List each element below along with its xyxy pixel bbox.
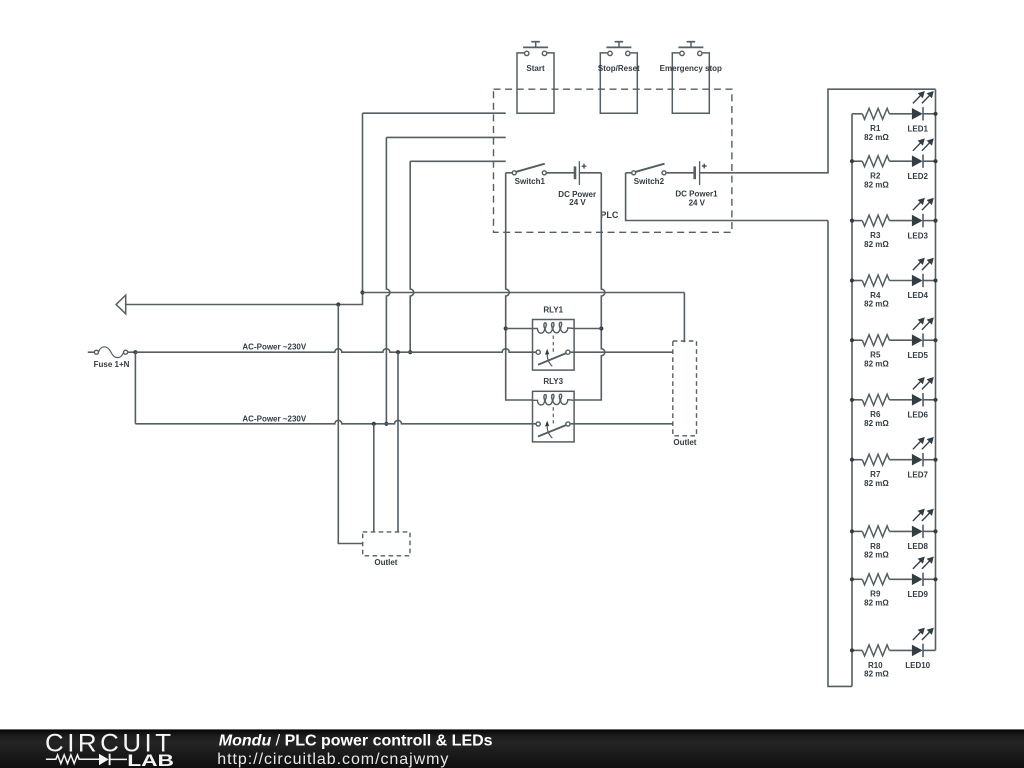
wire RLY1 coil right lead [574, 328, 601, 330]
svg-text:Outlet: Outlet [374, 558, 397, 567]
svg-text:Stop/Reset: Stop/Reset [598, 64, 640, 73]
wire vertical from AC1 to bottom outlet (x=398.0) [397, 352, 399, 532]
LED LED6 [907, 377, 935, 420]
resistor R9 [852, 574, 912, 608]
svg-text:Switch1: Switch1 [515, 177, 546, 186]
junction right bus row 5 [933, 338, 937, 342]
junction at (410.2,352.2) [408, 350, 412, 354]
resistor R10 [852, 645, 912, 679]
svg-text:R10: R10 [868, 661, 883, 670]
wire horizontal net at y=292.5 from (362.5) to right outlet drop [363, 292, 685, 294]
LED LED1 [907, 91, 935, 134]
svg-text:R3: R3 [870, 231, 881, 240]
svg-text:LED5: LED5 [907, 351, 928, 360]
wire AC line 2 (neutral) y=423.8 [135, 420, 672, 423]
svg-text:R9: R9 [870, 590, 881, 599]
resistor R6 [852, 394, 912, 428]
svg-text:http://circuitlab.com/cnajwmy: http://circuitlab.com/cnajwmy [217, 751, 449, 768]
wire AC line 1 (live) y=352.2 [135, 349, 672, 353]
wire PLC input stub 3 (y=161) [410, 160, 506, 162]
wire vertical from stub1 down to node row (x=362.5) [362, 113, 364, 292]
brand bar [0, 729, 1024, 768]
svg-text:Fuse 1+N: Fuse 1+N [94, 360, 130, 369]
junction left bus row 4 [850, 278, 854, 282]
PLC enclosure dashed box [494, 89, 732, 232]
fuse Fuse 1+N [88, 347, 136, 369]
svg-text:RLY3: RLY3 [543, 377, 563, 386]
wire PLC input stub 1 (y=113) [363, 112, 506, 114]
svg-text:82 mΩ: 82 mΩ [864, 359, 889, 368]
svg-text:LED10: LED10 [905, 661, 930, 670]
resistor R5 [852, 335, 912, 369]
svg-text:R7: R7 [870, 470, 881, 479]
junction left bus row 2 [850, 159, 854, 163]
junction left bus row 5 [850, 338, 854, 342]
logo resistor-diode glyph [46, 755, 99, 764]
resistor R2 [852, 156, 912, 190]
junction right bus row 3 [933, 219, 937, 223]
junction at (505.7,328.5) [504, 326, 508, 330]
wire LED ladder right bus (x=935.5) [935, 89, 937, 650]
wire DC Power1 + feed to LED ladder top [700, 89, 936, 173]
svg-text:R8: R8 [870, 542, 881, 551]
junction at (398.0,352.2) [396, 350, 400, 354]
svg-text:82 mΩ: 82 mΩ [864, 300, 889, 309]
junction left bus row 3 [850, 219, 854, 223]
svg-text:82 mΩ: 82 mΩ [864, 599, 889, 608]
battery DC Power1 24 V [675, 161, 718, 207]
junction right bus row 7 [933, 458, 937, 462]
junction at (362.5,292.5) [360, 290, 364, 294]
svg-text:24 V: 24 V [689, 199, 706, 208]
svg-text:82 mΩ: 82 mΩ [864, 479, 889, 488]
LED LED10 [905, 628, 935, 671]
svg-text:LED3: LED3 [907, 231, 928, 240]
svg-text:24 V: 24 V [569, 198, 586, 207]
svg-text:LED2: LED2 [907, 172, 928, 181]
svg-text:LED9: LED9 [907, 590, 928, 599]
svg-text:Emergency stop: Emergency stop [660, 64, 722, 73]
junction at (338.3,304.5) [336, 302, 340, 306]
LED LED4 [907, 258, 935, 301]
LED LED5 [907, 317, 935, 360]
svg-text:82 mΩ: 82 mΩ [864, 133, 889, 142]
junction left bus row 9 [850, 577, 854, 581]
wire vertical from stub3 down to AC line 1 (x=410.2) [410, 161, 414, 352]
svg-text:R5: R5 [870, 351, 881, 360]
svg-text:LED7: LED7 [907, 470, 928, 479]
svg-text:DC Power1: DC Power1 [675, 190, 718, 199]
svg-text:Switch2: Switch2 [634, 177, 665, 186]
resistor R8 [852, 526, 912, 560]
junction left bus row 10 [850, 648, 854, 652]
svg-text:LAB: LAB [127, 752, 174, 768]
wire return vertical (x=828) down to bottom [828, 221, 852, 687]
switch Switch2 [626, 164, 695, 187]
svg-text:LED8: LED8 [907, 542, 928, 551]
outlet bottom dashed box [363, 532, 410, 556]
wire Switch2-left down and return line y=220.5 [626, 173, 828, 221]
wire vertical from stub2 down to AC line 2 (x=386.4) [386, 137, 390, 423]
svg-text:R2: R2 [870, 172, 881, 181]
resistor R4 [852, 275, 912, 309]
svg-text:82 mΩ: 82 mΩ [864, 551, 889, 560]
svg-text:AC-Power ~230V: AC-Power ~230V [242, 342, 306, 351]
wire LED ladder left bus (x=852) [851, 114, 853, 687]
svg-text:82 mΩ: 82 mΩ [864, 180, 889, 189]
junction left bus row 8 [850, 529, 854, 533]
svg-text:Mondu / PLC power controll & L: Mondu / PLC power controll & LEDs [219, 732, 493, 749]
svg-text:LED1: LED1 [907, 125, 928, 134]
wire DC Power + vertical (x=601.3) down to RLY3 coil right [574, 173, 605, 400]
junction right bus row 6 [933, 398, 937, 402]
junction left bus row 7 [850, 458, 854, 462]
wire RLY1 coil left lead [506, 328, 533, 330]
svg-text:R6: R6 [870, 410, 881, 419]
wire vertical from AC2 to bottom outlet (x=373.8) [373, 424, 375, 532]
pushbutton Stop/Reset [598, 42, 640, 114]
resistor R3 [852, 215, 912, 249]
LED LED7 [907, 437, 935, 480]
resistor R7 [852, 454, 912, 488]
relay RLY3 [533, 377, 575, 442]
resistor R1 [852, 108, 912, 142]
wire vertical down-left feed (x=338.3) to bottom outlet [338, 305, 362, 544]
battery DC Power 24 V [558, 161, 601, 207]
svg-text:LED4: LED4 [907, 291, 928, 300]
pushbutton Emergency stop [660, 42, 722, 114]
junction at (373.8,423.8) [372, 422, 376, 426]
junction right bus row 2 [933, 159, 937, 163]
junction at (386.4,423.8) [384, 422, 388, 426]
wire Switch1-left vertical (x=505.7) down to RLY3 coil [506, 173, 533, 400]
svg-text:R4: R4 [870, 291, 881, 300]
junction at (601.3,328.5) [599, 326, 603, 330]
LED LED8 [907, 509, 935, 551]
svg-text:PLC: PLC [600, 210, 619, 220]
junction at fuse output (135.4,352.2) [133, 350, 137, 354]
svg-text:Outlet: Outlet [673, 438, 696, 447]
wire from arrow to junction (y=304.5) [126, 304, 338, 306]
LED LED3 [907, 198, 935, 241]
svg-text:82 mΩ: 82 mΩ [864, 419, 889, 428]
pushbutton Start [517, 42, 554, 114]
LED LED2 [907, 138, 935, 181]
svg-text:LED6: LED6 [907, 411, 928, 420]
svg-text:82 mΩ: 82 mΩ [864, 240, 889, 249]
LED LED9 [907, 557, 935, 600]
svg-text:Start: Start [526, 64, 545, 73]
port arrow (net name flag) [116, 295, 126, 314]
svg-text:RLY1: RLY1 [543, 306, 563, 315]
svg-text:82 mΩ: 82 mΩ [864, 670, 889, 679]
junction right bus row 8 [933, 529, 937, 533]
svg-text:AC-Power ~230V: AC-Power ~230V [242, 415, 306, 424]
junction right bus row 1 [933, 112, 937, 116]
wire corner from node row to arrow wire [338, 293, 362, 305]
wire from fuse down to AC line 2 [134, 352, 136, 424]
relay RLY1 [533, 306, 575, 371]
outlet right dashed box [673, 341, 697, 436]
junction right bus row 4 [933, 278, 937, 282]
wire drop to right outlet (x=684.4) [683, 293, 685, 343]
wire PLC input stub 2 (y=137) [386, 136, 505, 138]
junction left bus row 6 [850, 398, 854, 402]
switch Switch1 [506, 164, 575, 187]
junction right bus row 9 [933, 577, 937, 581]
svg-text:R1: R1 [870, 124, 881, 133]
